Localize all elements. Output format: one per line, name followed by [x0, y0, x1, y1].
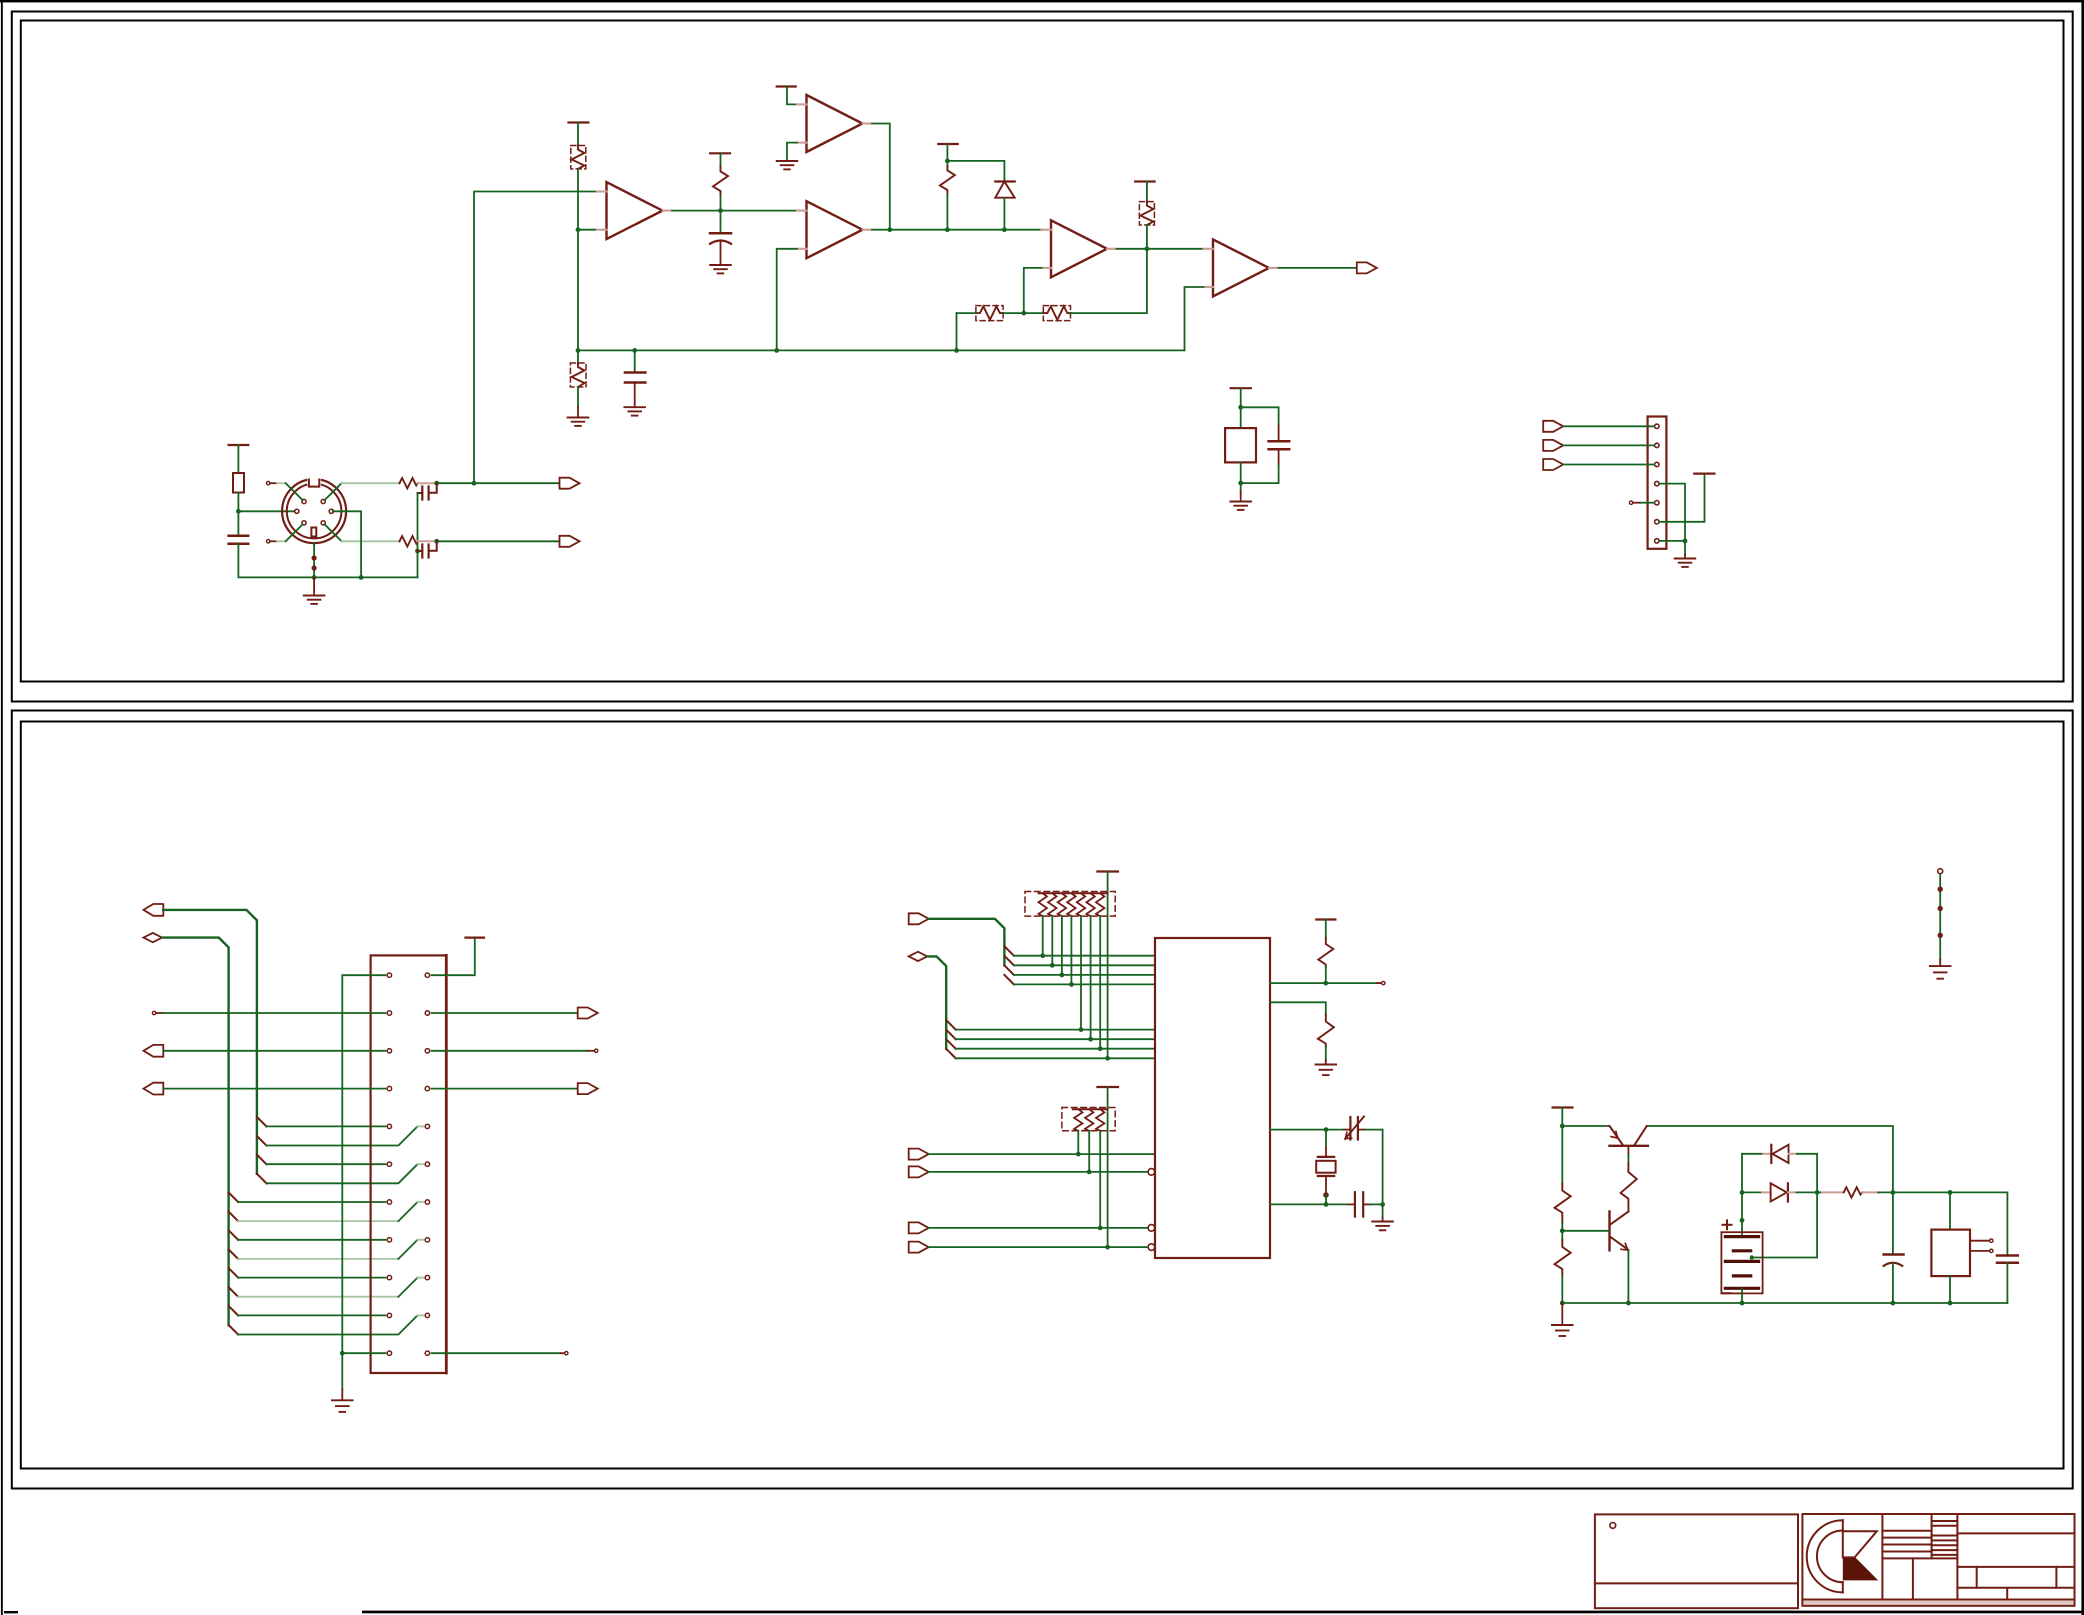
title block left box [1595, 1514, 1798, 1608]
title block table grid [1882, 1514, 2074, 1600]
power bar VCC13 [1553, 1106, 1573, 1108]
wire to IC pin b4 [956, 1057, 1155, 1059]
power bar VCC6 [1135, 180, 1154, 182]
wire to op-amp U1A inverting input [578, 229, 597, 231]
wire row11 left [342, 1352, 385, 1354]
wire to diode [947, 161, 1004, 181]
resistor R1 (box style) [233, 473, 244, 493]
ground rail wire [578, 349, 1185, 351]
wire IC out D [1270, 1203, 1348, 1205]
ground below divider [1561, 1303, 1563, 1325]
wire to IC pin a3 [1014, 974, 1155, 976]
terminal arrow MID4 [909, 1166, 929, 1177]
wire to ground [1240, 483, 1242, 491]
wire [577, 123, 579, 146]
transistor Q2 NPN [1627, 1210, 1629, 1213]
wire to IC pin a2 [1014, 964, 1155, 966]
resistor R2 row1 [400, 478, 418, 488]
node junction [1683, 539, 1688, 544]
battery minus sign [1723, 1292, 1731, 1294]
bus wire from MID2 [927, 956, 946, 1048]
wire J2 pin7 to ground [1660, 540, 1685, 542]
wire J2 pin4 down [1660, 484, 1685, 541]
stub pin row2 left [152, 1011, 155, 1014]
ground below J2 [1675, 559, 1696, 567]
node junction [1560, 1228, 1565, 1233]
terminal arrow row3 in [144, 1045, 164, 1057]
wire U1E output to terminal [1279, 267, 1357, 269]
terminal arrow J2 row2 [1543, 440, 1563, 451]
terminal arrow output [1357, 262, 1377, 273]
resistor R5 [720, 153, 722, 166]
terminal arrow row1 [560, 478, 580, 489]
capacitor C9 [2006, 1192, 2008, 1254]
DIN pin 5 [302, 521, 306, 525]
title block pale bottom strip [1804, 1601, 2074, 1605]
terminal arrow MID3 [909, 1149, 929, 1160]
commodore logo C inner arc [1817, 1531, 1843, 1583]
IC inverted pin bubble [1148, 1169, 1155, 1176]
page bottom border left tick [4, 1611, 18, 1613]
ground below C7 [1382, 1204, 1384, 1217]
wire IC out A [1270, 982, 1377, 984]
capacitor C3 row2 [421, 545, 423, 558]
DIN shield pin dot [312, 565, 317, 570]
ground below U1C [777, 161, 798, 169]
node junction [945, 159, 950, 164]
J2 pin 2 [1655, 443, 1659, 447]
commodore logo upper flag outline [1843, 1531, 1877, 1557]
wire row9 right feed (pale) [238, 1296, 398, 1298]
node junction row11 [340, 1351, 345, 1356]
node junction [1948, 1301, 1953, 1306]
node junction [1626, 1301, 1631, 1306]
J2 pin 5 [1655, 501, 1659, 505]
node junction [1145, 246, 1150, 251]
capacitor C2 row1 [421, 487, 423, 500]
wire [1240, 388, 1242, 428]
wire row4 right [432, 1088, 578, 1090]
commodore logo lower flag solid [1843, 1558, 1878, 1581]
op-amp U1E [1213, 239, 1269, 296]
wire U1D inverting input [1024, 268, 1042, 313]
wire DIN to amp chain vertical [474, 192, 597, 484]
stub pin row2 [267, 540, 270, 543]
node junction [1891, 1190, 1896, 1195]
resistor R12 [1318, 1015, 1334, 1046]
terminal arrow row4 out [578, 1083, 598, 1094]
terminal arrow MID1 [909, 913, 929, 924]
RP1 resistor leads down [1043, 916, 1101, 1049]
J2 pin 4 [1655, 481, 1659, 485]
capacitor C6 [1278, 426, 1280, 441]
bottom section outer frame [12, 711, 2073, 1489]
node junction [359, 575, 364, 580]
ground below R12 [1316, 1065, 1337, 1076]
power bar VCC9 [466, 936, 485, 938]
wire to IC pin b3 [956, 1048, 1155, 1050]
wire [957, 312, 976, 314]
resistor R15 divider bottom [1561, 1231, 1563, 1240]
wire diagonal to pin5 [286, 524, 303, 541]
wire diode column left [1741, 1154, 1743, 1221]
node junction [434, 481, 439, 486]
wire row7 right feed (pale) [238, 1220, 398, 1222]
wire to IC pin b2 [956, 1038, 1155, 1040]
capacitor C4 polarized [720, 211, 722, 231]
battery tap wire [1753, 1257, 1818, 1259]
node junction [774, 348, 779, 353]
node junction [1740, 1190, 1745, 1195]
power bar VCC2 [569, 121, 589, 123]
ground below J3 [341, 1353, 343, 1390]
wire [238, 544, 417, 578]
wire pin4 down to ground rail [333, 511, 361, 577]
node junction [1238, 405, 1243, 410]
diode D1 [995, 180, 1014, 182]
transistor Q1 PNP [1610, 1126, 1623, 1145]
top section outer frame [12, 12, 2073, 702]
resistor R9 (dashed box) [1146, 182, 1148, 202]
terminal arrow MID5 [909, 1222, 929, 1233]
terminal arrow row2 out [578, 1008, 598, 1019]
wire IC out B to resistor R12 [1270, 1002, 1326, 1014]
capacitor C5 [634, 350, 636, 371]
resistor R7 (dashed box horizontal) [976, 306, 1003, 321]
wire IC out C [1270, 1129, 1344, 1131]
node junction [1815, 1190, 1820, 1195]
top section inner frame [21, 21, 2064, 682]
node junction [1891, 1301, 1896, 1306]
node junctions RP1 [1040, 953, 1045, 958]
power bar VCC7 [1231, 387, 1251, 389]
wire row5 right feed [266, 1126, 417, 1145]
wire [237, 445, 239, 473]
capacitor C7 [1354, 1192, 1356, 1216]
bus ripper diagonals A [257, 1117, 267, 1183]
ground below R10 [568, 418, 589, 426]
node junction [887, 227, 892, 232]
node junction [945, 227, 950, 232]
title block left box rivet circle [1610, 1523, 1616, 1529]
wire U1E inverting input to rail [1185, 287, 1204, 350]
bus ripper diagonals D [946, 1020, 956, 1058]
resistor pack RP1 (dashed box) [1025, 892, 1115, 917]
DIN pin 2 [321, 499, 325, 503]
wire feedback to U1D output [1071, 249, 1147, 313]
commodore logo C chords [1842, 1520, 1844, 1530]
RP2 resistor leads down [1078, 1131, 1100, 1228]
power bar VCC10 [1097, 870, 1118, 872]
title block right box [1802, 1514, 2074, 1606]
resistor pack RP2 (dashed box) [1062, 1108, 1115, 1131]
node junction [1948, 1190, 1953, 1195]
bus wire from MID1 [929, 919, 1005, 966]
wire U1B inverting input to rail [777, 249, 797, 351]
battery bottom lead [1741, 1288, 1743, 1303]
ground below C5 [624, 407, 645, 415]
DIN pin 3 [295, 509, 299, 513]
terminal arrow row4 in [144, 1083, 164, 1095]
connector J1 DIN outer circle [282, 479, 346, 543]
stub pin row1 [267, 482, 270, 485]
wire row2 right [432, 1012, 578, 1014]
resistor R13 below Q1 base [1627, 1146, 1629, 1155]
IC inverted pin bubble [1148, 1225, 1155, 1232]
module U3 box [1949, 1192, 1951, 1229]
J3 right pins [425, 973, 429, 1355]
capacitor C1 [229, 536, 249, 544]
wire top rail left [1562, 1125, 1609, 1127]
wire diagonal from pin2 [325, 483, 342, 500]
bottom rail [1562, 1302, 2007, 1304]
op-amp U1B [807, 201, 863, 258]
terminal diamond IN2 [144, 933, 163, 942]
wire R16 to right [1878, 1191, 2007, 1193]
DIN shield pin dot [312, 555, 317, 560]
wire U1C output down [872, 124, 890, 230]
power bar VCC3 [710, 152, 730, 154]
wire row6 right feed [266, 1164, 417, 1183]
bus ripper diagonals C [1004, 946, 1014, 984]
wire to IC pin a4 [1014, 983, 1155, 985]
IC inverted pin bubble [1148, 1244, 1155, 1251]
ground below stray net [1930, 966, 1951, 979]
bus wire from IN2 [162, 938, 229, 1325]
J2 pin 3 [1655, 462, 1659, 466]
wire [1240, 462, 1242, 483]
IC U2 box [1155, 938, 1270, 1258]
commodore logo C outer arc [1807, 1520, 1843, 1592]
node junction [472, 481, 477, 486]
op-amp U1C [807, 95, 863, 152]
node junction [1323, 981, 1328, 986]
wire row10 left [238, 1314, 385, 1316]
node junction [954, 348, 959, 353]
J3 row1 left wire and ground column [342, 975, 385, 1353]
resistor R10 (dashed box) [577, 350, 579, 363]
power feed through RP1 [1107, 872, 1109, 1059]
wire vertical cap column [417, 493, 419, 577]
DIN notch [309, 480, 319, 487]
wire row3 right to stub [432, 1050, 588, 1052]
connector J3 box [371, 955, 447, 1373]
wire diagonal from pin6 [325, 524, 342, 541]
ground below C4 [710, 265, 731, 273]
terminal arrow MID6 [909, 1242, 929, 1253]
power bar VCC12 [1316, 918, 1335, 920]
resistor R6 [946, 144, 948, 166]
node junction [718, 208, 723, 213]
wire [237, 493, 239, 512]
power bar VCC5 [938, 143, 957, 145]
wire diode column right [1816, 1154, 1818, 1258]
wire to U1C non-inverting input [787, 87, 797, 105]
page left border [1, 0, 3, 1615]
stray net with pin dots [1938, 869, 1943, 874]
op-amp U1D [1051, 220, 1107, 277]
power feed through RP2 [1107, 1087, 1109, 1247]
DIN notch mask [307, 477, 321, 487]
wire row8 left [238, 1239, 385, 1241]
wire U1C inverting input to ground [787, 143, 797, 161]
wire to DIN pin 3 [238, 510, 295, 512]
wire [1003, 312, 1043, 314]
wire down right of trimmer [1382, 1130, 1384, 1205]
terminal arrow row2 [560, 536, 580, 547]
terminal arrow J2 row3 [1543, 459, 1563, 470]
node junction [1380, 1202, 1385, 1207]
node junction [312, 575, 317, 580]
power bar VCC4 [777, 85, 796, 87]
J3 left pins [387, 973, 391, 1355]
wire to Q2 base [1562, 1230, 1608, 1232]
wire pale row1 [342, 482, 400, 484]
wire row8 right feed (pale) [238, 1258, 398, 1260]
wire left feedback to rail [956, 313, 958, 350]
wire row7 left [238, 1201, 385, 1203]
terminal arrow J2 row1 [1543, 421, 1563, 432]
wire to IC pin a1 [1014, 955, 1155, 957]
DIN key rectangle [311, 528, 316, 537]
resistor R16 [1844, 1187, 1863, 1197]
node junction [1560, 1124, 1565, 1129]
U3 stub pins [1970, 1240, 1990, 1242]
node junction [1740, 1301, 1745, 1306]
DIN pin 1 [302, 499, 306, 503]
node junction [1238, 481, 1243, 486]
J2 pin 6 [1655, 520, 1659, 524]
wire pale row2 [342, 540, 400, 542]
wire row2 left [163, 1012, 385, 1014]
page right border [2081, 0, 2084, 1615]
wire row10 right feed [238, 1315, 417, 1334]
resistor R8 (dashed box horizontal) [1043, 306, 1070, 321]
wire row6 left [266, 1163, 385, 1165]
bus ripper diagonals B [229, 1193, 239, 1335]
bus wire from IN1 [163, 910, 257, 1174]
node junction [632, 348, 637, 353]
node junction [576, 227, 581, 232]
wire row9 left [238, 1277, 385, 1279]
wire to IC pin b1 [956, 1029, 1155, 1031]
resistor R3 row2 [400, 536, 418, 546]
node junction [576, 348, 581, 353]
J3 row1 right wire to power [432, 939, 475, 976]
crystal Y2 [1325, 1130, 1327, 1148]
J2 pin 7 [1655, 539, 1659, 543]
wire row2 to terminal [437, 540, 560, 542]
wire row1 to terminal [437, 482, 560, 484]
capacitor C8 polarized [1892, 1192, 1894, 1253]
wire DIN shield to rail [313, 543, 315, 577]
trimmer capacitor CT1 [1349, 1117, 1351, 1140]
connector J2 keyboard box [1648, 417, 1667, 549]
node junction [236, 509, 241, 514]
battery plus sign [1723, 1220, 1732, 1229]
terminal diamond MID2 [909, 952, 928, 961]
wire top branch [1241, 407, 1279, 425]
terminal arrow IN1 [144, 904, 164, 916]
diode D2 row [1742, 1153, 1763, 1155]
node junction [1002, 227, 1007, 232]
page bottom border segment [362, 1611, 2084, 1614]
wire top rail right [1647, 1126, 1893, 1192]
wire U1B output to U1D input [872, 229, 1041, 231]
wire [237, 511, 239, 534]
wire U1A output to U1B input [672, 210, 801, 212]
power bar VCC11 [1097, 1086, 1118, 1088]
resistor R14 divider top [1561, 1126, 1563, 1184]
node junction [434, 539, 439, 544]
wire U1D output to U1E input [1117, 248, 1204, 250]
crystal Y1 box [1225, 428, 1256, 462]
node junction [1740, 1218, 1745, 1223]
power bar VCC8 [1694, 473, 1714, 475]
ground below crystal [1230, 502, 1251, 510]
power bar VCC1 [229, 444, 249, 446]
bottom section inner frame [21, 722, 2064, 1469]
DIN pin 4 [329, 509, 333, 513]
page top border [0, 0, 2084, 2]
diode D3 row [1742, 1191, 1762, 1193]
stub pin J2 row5 [1629, 501, 1632, 504]
op-amp U1A [607, 182, 663, 239]
J2 pin 1 [1655, 424, 1659, 428]
wire [577, 169, 579, 351]
crystal pin dot [1323, 1192, 1329, 1198]
wire J2 pin6 to power [1660, 475, 1705, 522]
wire row4 left [163, 1088, 385, 1090]
node junction [415, 549, 420, 554]
ground below DIN [313, 577, 315, 595]
wire diagonal to pin1 [286, 483, 303, 500]
resistor R4 (dashed box) [571, 146, 586, 169]
wire row3 left [163, 1050, 385, 1052]
node junction [1021, 311, 1026, 316]
node junction [1560, 1301, 1565, 1306]
resistor R11 pull-up [1325, 920, 1327, 939]
wire bottom branch [1241, 465, 1279, 483]
wire row11 right to stub [432, 1352, 561, 1354]
wire row5 left [266, 1125, 385, 1127]
connector J3 thick right edge [445, 955, 448, 1373]
battery BT1 [1741, 1220, 1743, 1236]
DIN pin 6 [321, 521, 325, 525]
node junctions RP2 [1076, 1152, 1081, 1157]
connector J1 DIN inner circle [287, 484, 342, 539]
